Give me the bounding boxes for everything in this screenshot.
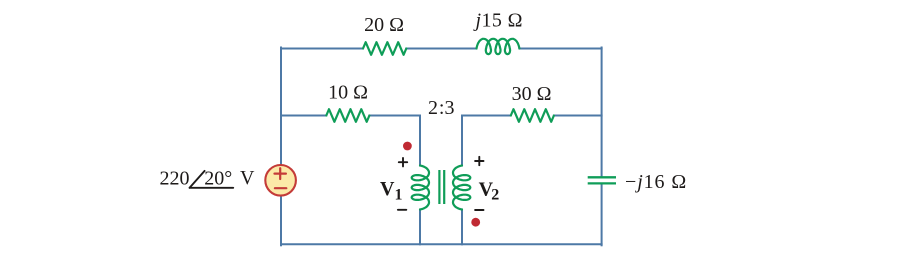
svg-text:3: 3 — [445, 97, 455, 119]
svg-text:10 Ω: 10 Ω — [328, 82, 368, 104]
svg-text:−j16 Ω: −j16 Ω — [625, 171, 687, 193]
svg-text:j15 Ω: j15 Ω — [473, 10, 523, 32]
svg-text:20 Ω: 20 Ω — [364, 14, 404, 36]
svg-text:30 Ω: 30 Ω — [512, 83, 552, 105]
svg-text:220: 220 — [160, 167, 190, 189]
svg-text:20°: 20° — [204, 167, 232, 189]
svg-text:V: V — [240, 167, 255, 189]
svg-text:2: 2 — [428, 97, 438, 119]
